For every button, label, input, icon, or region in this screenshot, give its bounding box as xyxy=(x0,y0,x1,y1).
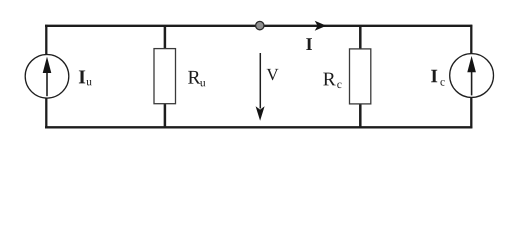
label Ru xyxy=(188,71,200,84)
wire top xyxy=(45,25,472,27)
wire Rc branch vertical xyxy=(359,26,362,128)
resistor Rc xyxy=(350,49,371,104)
wire right vertical xyxy=(470,25,472,129)
current source Ic xyxy=(450,54,494,98)
current arrow I on top wire xyxy=(315,21,327,31)
node dot xyxy=(256,21,264,29)
wire Ru branch vertical xyxy=(164,26,167,128)
wire left vertical xyxy=(45,25,47,129)
label Rc xyxy=(323,73,335,86)
current source Iu xyxy=(25,55,69,99)
label V xyxy=(267,69,279,80)
voltage arrow V xyxy=(259,53,261,109)
label Iu xyxy=(79,70,85,83)
resistor Ru xyxy=(154,49,176,104)
label I xyxy=(306,38,312,50)
wire bottom xyxy=(45,126,472,128)
label Ic xyxy=(431,70,437,82)
